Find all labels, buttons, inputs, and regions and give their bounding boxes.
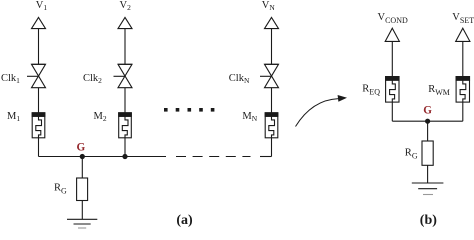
wire xyxy=(391,41,393,76)
ground (a) xyxy=(67,219,97,228)
wire ground rail (a) dashed xyxy=(176,156,251,158)
wire xyxy=(38,138,40,157)
arrow from (a) to (b) xyxy=(296,99,339,127)
wire xyxy=(271,88,273,113)
switch Clk2 xyxy=(114,64,133,87)
wire xyxy=(38,88,40,113)
wire xyxy=(271,138,273,157)
wire xyxy=(462,102,464,121)
wire node G to RG (b) xyxy=(427,121,429,141)
resistor RG (a) xyxy=(77,178,88,201)
wire xyxy=(81,201,83,220)
wire xyxy=(271,29,273,65)
wire node G to RG (a) xyxy=(81,157,83,179)
wire rail (b) xyxy=(392,120,463,122)
wire xyxy=(124,29,126,65)
node VCOND source arrow xyxy=(385,28,399,76)
memristor RWM xyxy=(456,77,469,103)
junction node G (a) xyxy=(80,154,85,159)
memristor M2 xyxy=(119,113,132,138)
memristor M1 xyxy=(32,113,45,138)
ground (b) xyxy=(412,183,444,195)
node VN source arrow xyxy=(265,17,279,64)
switch ClkN xyxy=(260,64,279,87)
wire ground rail (a) right corner xyxy=(260,156,272,158)
node VSET source arrow xyxy=(456,28,470,76)
node V2 source arrow xyxy=(118,17,132,64)
switch Clk1 xyxy=(27,64,46,87)
wire xyxy=(124,138,126,157)
wire xyxy=(462,41,464,76)
resistor RG (b) xyxy=(422,141,433,165)
svg-text:G: G xyxy=(423,104,432,116)
wire xyxy=(427,165,429,183)
junction node G (b) xyxy=(425,119,430,124)
junction col2 rail xyxy=(122,154,127,159)
arrowhead of (a)->(b) arrow xyxy=(338,95,347,102)
wire ground rail (a) solid xyxy=(39,156,167,158)
wire xyxy=(124,88,126,113)
dots ..... xyxy=(164,108,214,112)
wire xyxy=(391,102,393,121)
svg-text:G: G xyxy=(77,142,86,154)
node V1 source arrow xyxy=(32,17,46,64)
wire xyxy=(38,29,40,65)
memristor REQ xyxy=(386,77,399,103)
memristor MN xyxy=(265,113,278,138)
svg-text:(a): (a) xyxy=(176,213,193,228)
svg-text:(b): (b) xyxy=(420,213,437,228)
